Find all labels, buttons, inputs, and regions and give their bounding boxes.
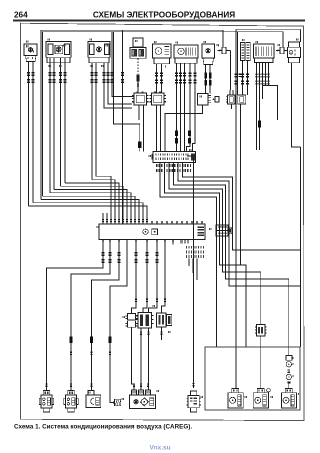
svg-text:Vnx.su: Vnx.su: [150, 445, 171, 452]
svg-text:264: 264: [14, 11, 28, 20]
svg-text:Схема 1. Система кондициониров: Схема 1. Система кондиционирования возду…: [14, 424, 192, 431]
svg-text:СХЕМЫ ЭЛЕКТРООБОРУДОВАНИЯ: СХЕМЫ ЭЛЕКТРООБОРУДОВАНИЯ: [93, 10, 235, 19]
